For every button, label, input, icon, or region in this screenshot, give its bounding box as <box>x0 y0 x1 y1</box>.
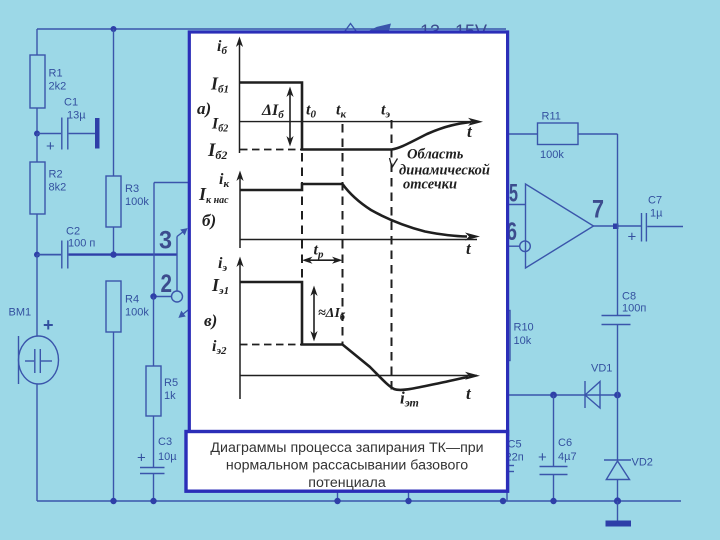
dashed timeline tk <box>342 124 344 345</box>
dashed level I_e2 <box>240 344 302 346</box>
wire R11 down column <box>617 134 619 316</box>
resistor R2 <box>30 162 66 214</box>
svg-text:10µ: 10µ <box>158 451 177 463</box>
node 2 terminal circle <box>172 291 183 302</box>
wire VD1 node to VD2 <box>617 395 619 460</box>
wire R5 column upper <box>153 297 155 367</box>
capacitor C7 <box>628 195 684 246</box>
node junction left/C2 <box>34 252 40 258</box>
svg-text:R3: R3 <box>125 183 139 195</box>
node junction R1/R2/C1 <box>34 131 40 137</box>
svg-text:R2: R2 <box>49 169 63 181</box>
waveform v <box>240 282 468 390</box>
callout area text <box>390 147 490 193</box>
axis a vertical <box>236 37 243 154</box>
wire node 3 signal (thick) <box>69 253 177 255</box>
waveform b arrowhead <box>465 233 480 241</box>
axis b time <box>240 239 477 241</box>
resistor R1 <box>30 55 66 108</box>
node junction rail VD2 <box>614 497 621 504</box>
caption box <box>186 432 508 492</box>
svg-text:отсечки: отсечки <box>403 177 457 193</box>
svg-text:2k2: 2k2 <box>49 81 67 93</box>
capacitor C3 <box>137 436 177 501</box>
node junction rail stub B <box>405 498 411 504</box>
delta Ib arrow <box>286 87 293 147</box>
svg-text:нормальном рассасывании базово: нормальном рассасывании базового <box>226 458 468 474</box>
axis v vertical <box>236 257 243 400</box>
resistor R10 <box>496 246 534 395</box>
axis a time <box>240 121 478 123</box>
node junction rail R4 <box>110 498 116 504</box>
svg-text:+: + <box>538 449 547 466</box>
wire node to R2 <box>36 134 38 163</box>
svg-text:C5: C5 <box>508 439 522 451</box>
svg-text:C7: C7 <box>648 195 662 207</box>
resistor R3 <box>106 176 149 227</box>
waveform v arrowhead <box>465 372 480 380</box>
approx delta Ib arrow <box>310 286 317 342</box>
node junction rail C5 <box>500 498 506 504</box>
svg-text:1µ: 1µ <box>650 208 663 220</box>
wire hidden stub B to rail <box>408 492 410 501</box>
svg-text:100п: 100п <box>622 303 646 315</box>
svg-text:R10: R10 <box>514 322 534 334</box>
supply symbol fragment <box>345 24 390 33</box>
axis b vertical <box>236 171 243 249</box>
node 3 plug arrow <box>177 229 187 237</box>
wire R5 to C3 <box>153 416 155 467</box>
resistor R5 <box>146 366 178 416</box>
dashed timeline te <box>391 120 393 390</box>
svg-text:а): а) <box>197 99 211 118</box>
svg-text:C8: C8 <box>622 291 636 303</box>
wire R1 to node <box>36 108 38 134</box>
tp arrow <box>302 257 343 264</box>
resistor R11 <box>509 111 618 162</box>
node 3 terminal stem <box>176 237 178 292</box>
capacitor C8 <box>602 291 647 396</box>
axis v time <box>240 375 477 377</box>
svg-text:б): б) <box>202 211 216 230</box>
svg-text:+: + <box>137 450 146 467</box>
wire top supply rail <box>37 28 506 30</box>
overlay white panel <box>189 32 507 435</box>
svg-text:BM1: BM1 <box>9 307 32 319</box>
node junction C6 top <box>550 392 557 399</box>
svg-text:8k2: 8k2 <box>49 182 67 194</box>
svg-text:100k: 100k <box>125 307 149 319</box>
svg-text:13µ: 13µ <box>67 110 86 122</box>
node junction R3/C2 wire <box>110 251 116 257</box>
wire R4 bottom to ground rail <box>113 332 115 501</box>
svg-text:C6: C6 <box>558 437 572 449</box>
svg-text:+: + <box>43 315 54 335</box>
svg-text:100k: 100k <box>540 149 564 161</box>
wire node 2 to R5 column <box>154 296 173 298</box>
waveform b <box>240 184 467 237</box>
wire feedback row <box>503 394 618 396</box>
svg-text:5: 5 <box>509 180 518 208</box>
svg-text:4µ7: 4µ7 <box>558 451 577 463</box>
node junction VD1 right <box>614 392 621 399</box>
svg-text:100k: 100k <box>125 196 149 208</box>
ground symbol <box>606 501 632 527</box>
dashed level I_b2 <box>240 149 302 151</box>
waveform a arrowhead <box>468 118 483 126</box>
svg-text:1k: 1k <box>164 390 176 402</box>
svg-text:VD2: VD2 <box>632 457 653 469</box>
svg-text:Диаграммы процесса запирания Т: Диаграммы процесса запирания ТК—при <box>210 440 483 456</box>
svg-text:7: 7 <box>592 196 604 224</box>
svg-text:100 п: 100 п <box>68 238 95 250</box>
diode VD2 <box>604 457 653 502</box>
dashed timeline t0 <box>301 124 303 345</box>
svg-text:+: + <box>46 138 55 155</box>
capacitor C5 <box>500 439 524 502</box>
node junction rail stub A <box>334 498 340 504</box>
wire top rail to R3 <box>113 29 115 176</box>
wire R2 to C2 node <box>36 214 38 255</box>
op-amp U1 <box>509 184 594 268</box>
svg-text:R1: R1 <box>49 68 63 80</box>
wire hidden stub A to rail <box>337 492 339 501</box>
node junction output square <box>613 224 619 230</box>
svg-text:2: 2 <box>161 270 173 298</box>
svg-text:C1: C1 <box>64 97 78 109</box>
svg-text:в): в) <box>204 311 217 330</box>
wire R3 to node <box>113 227 115 255</box>
svg-text:R11: R11 <box>542 111 561 123</box>
svg-text:VD1: VD1 <box>591 363 612 375</box>
svg-text:потенциала: потенциала <box>308 475 386 491</box>
svg-text:10k: 10k <box>514 335 532 347</box>
svg-text:C3: C3 <box>158 436 172 448</box>
svg-text:R5: R5 <box>164 377 178 389</box>
node junction 2/R5 <box>150 293 156 299</box>
node junction rail C6 <box>550 498 556 504</box>
wire left rail upper <box>36 29 38 55</box>
svg-text:3: 3 <box>159 227 172 255</box>
node 2 plug arrow <box>180 309 191 318</box>
microphone BM1 <box>9 255 59 501</box>
resistor R4 <box>106 281 149 332</box>
diode VD1 <box>585 363 612 409</box>
svg-text:Область: Область <box>407 147 464 163</box>
capacitor C2 <box>37 226 95 269</box>
wire op-amp output <box>594 225 642 227</box>
waveform a <box>240 83 472 150</box>
ground rail bottom <box>37 500 681 502</box>
wire feedback column upper <box>154 183 189 297</box>
node junction rail C3 <box>150 498 156 504</box>
node junction top rail / R3 <box>111 26 117 32</box>
capacitor C1 <box>37 97 100 156</box>
capacitor C6 <box>538 395 577 501</box>
svg-text:C2: C2 <box>66 226 80 238</box>
svg-text:R4: R4 <box>125 294 139 306</box>
caption text <box>210 440 483 491</box>
svg-text:+: + <box>628 229 637 246</box>
